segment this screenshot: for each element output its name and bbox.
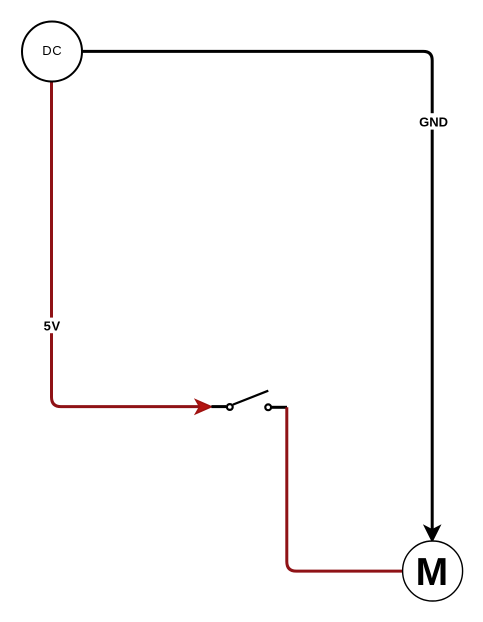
motor M1 [403,541,463,601]
wire: dark red from DC source to switch (5V net) [52,82,212,414]
node GND label [417,113,449,129]
power source DC1 [22,22,82,82]
svg-text:5V: 5V [44,318,61,333]
svg-text:DC: DC [42,43,62,58]
switch S1 (SPST, open) [211,391,287,410]
wire: black from DC source to motor (GND net) [82,51,440,541]
svg-text:GND: GND [419,114,448,129]
node 5V label [43,318,61,334]
wire: dark red from switch to motor [287,407,403,571]
svg-text:M: M [416,551,449,594]
